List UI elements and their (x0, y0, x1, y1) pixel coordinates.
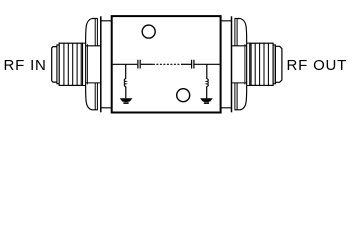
mounting hole top (142, 25, 155, 38)
mounting hole bottom (177, 89, 190, 102)
right connector J2 tip (275, 46, 282, 82)
wire: C2 to right wall (194, 63, 220, 65)
left connector J1 tip (52, 47, 58, 83)
shunt branch L1/G1 at node A (120, 64, 133, 104)
capacitor C2 plates (192, 60, 194, 69)
shunt branch L2/G2 at node B (mirrored) (200, 64, 213, 104)
body housing (112, 16, 221, 112)
wire: dashed section to capacitor C2 (181, 63, 191, 65)
wire: C1 to dashed section (141, 63, 153, 65)
right connector J2 (mirrored) (221, 16, 276, 112)
left connector J1 (57, 16, 112, 112)
svg-text:RF OUT: RF OUT (287, 57, 348, 74)
wire: dashed center section (153, 63, 180, 65)
capacitor C1 plates (138, 60, 140, 69)
svg-text:RF IN: RF IN (4, 57, 47, 74)
wire: left wall to capacitor C1 (112, 63, 137, 65)
